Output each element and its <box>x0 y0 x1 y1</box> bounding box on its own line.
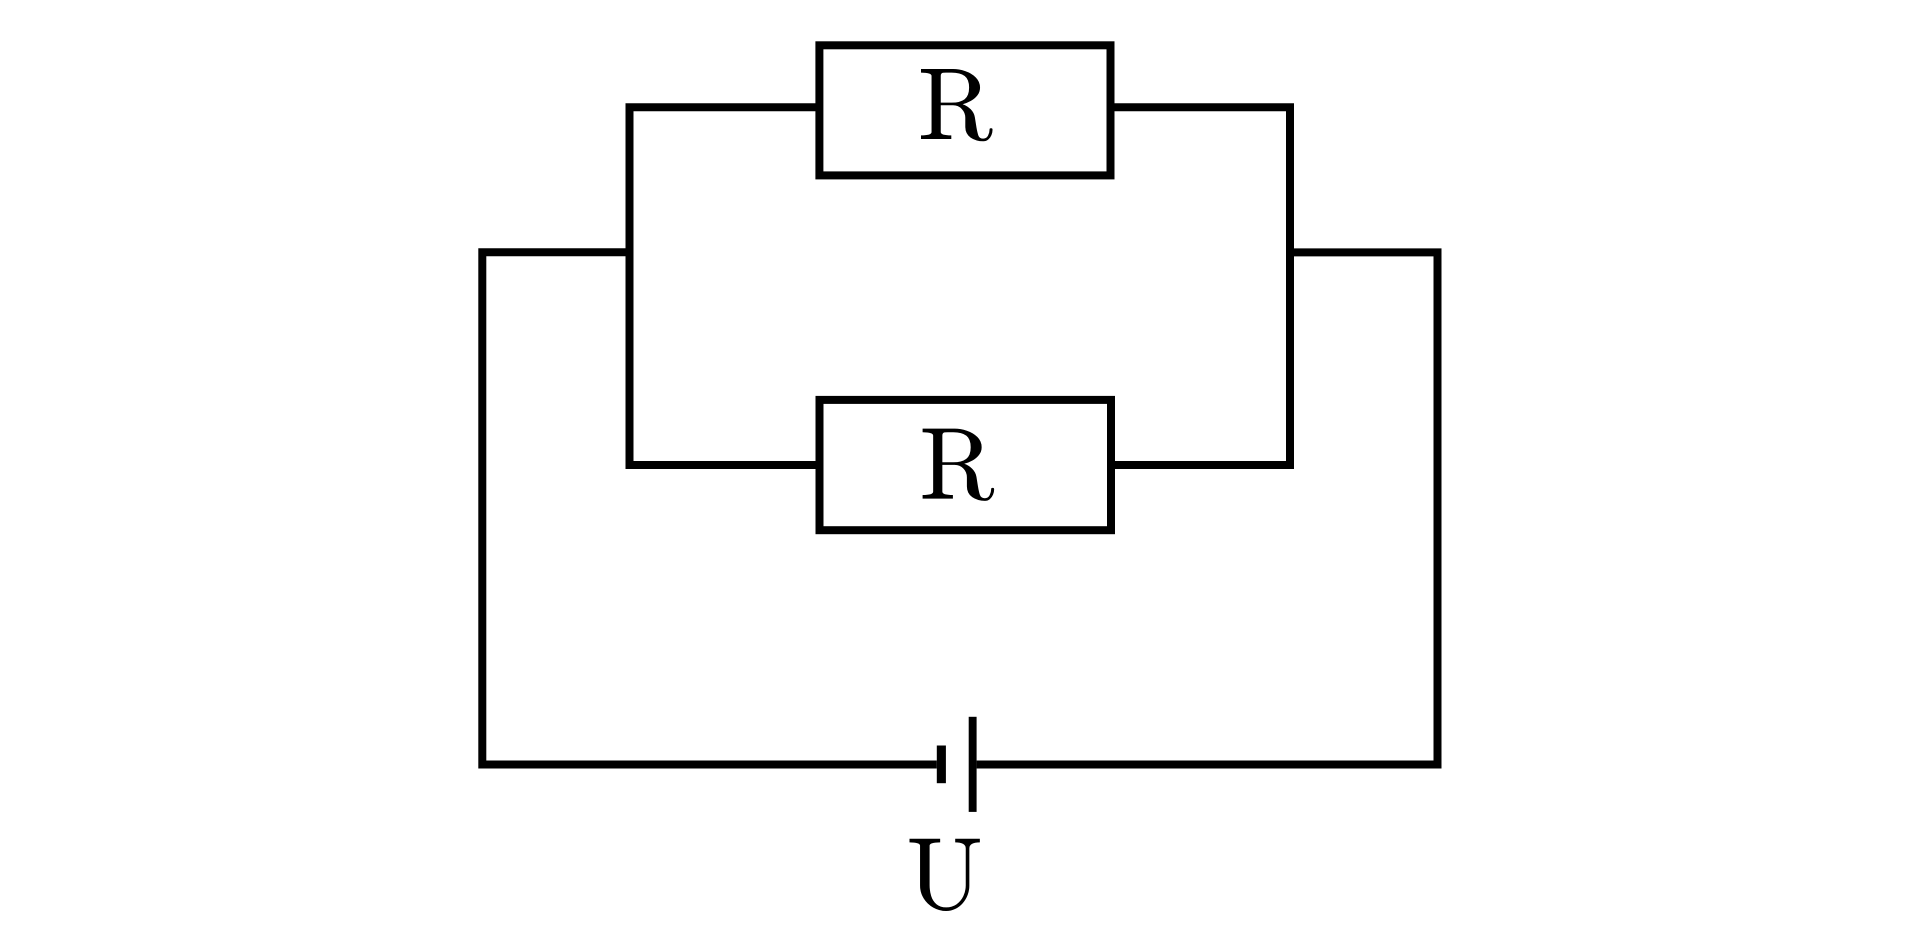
resistor R (bottom): value label R <box>923 429 995 501</box>
wire: outer loop left stub, left vertical, bottom-left run to battery <box>482 252 937 764</box>
wire: outer loop bottom-right run from battery, right vertical, right stub <box>977 252 1438 764</box>
resistor R (top): value label R <box>921 69 993 141</box>
battery U: source label U <box>910 839 980 911</box>
resistor R (bottom, parallel branch 2): box body <box>820 400 1112 530</box>
battery U: long thin positive plate <box>969 717 977 812</box>
battery U: short thick negative plate <box>937 746 946 784</box>
wire: inner loop top-left segment, left vertical, bottom-left segment <box>630 107 816 465</box>
wire: inner loop top-right segment, right vertical, bottom-right segment <box>1115 107 1291 465</box>
resistor R (top, parallel branch 1): box body <box>819 45 1110 175</box>
